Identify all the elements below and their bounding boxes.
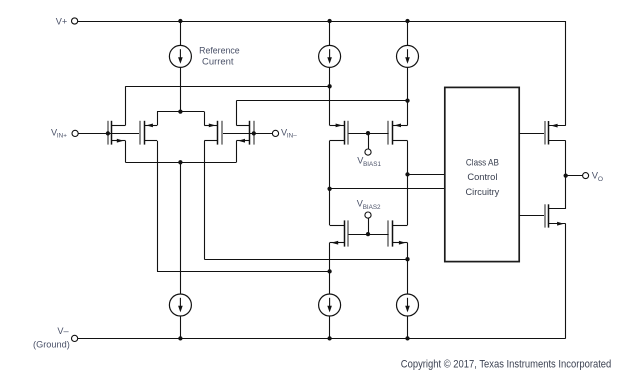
wire M7 source down — [329, 243, 331, 294]
wire M4 source up — [204, 112, 206, 126]
wire I5 to V- rail — [329, 316, 331, 338]
svg-text:IN+: IN+ — [57, 133, 67, 140]
svg-text:Reference: Reference — [199, 46, 240, 56]
wire tail to sink I4 — [180, 162, 182, 294]
wire M3 drain down — [157, 141, 159, 272]
wire classAB to M10 gate — [519, 215, 545, 217]
node inner-pair common source — [178, 109, 182, 113]
wire outer-left drain bus — [125, 86, 329, 88]
transistor M10 (output NMOS) — [544, 204, 546, 227]
wire VBIAS2 gate bus — [348, 234, 388, 236]
current sink I4 — [169, 294, 191, 316]
node junction V+/current source I2 — [327, 19, 331, 23]
node M5 drain / class-AB sense 2 — [327, 187, 331, 191]
wire sense2 to classAB box — [330, 188, 445, 190]
node M6 drain / class-AB sense 1 — [405, 172, 409, 176]
svg-text:V–: V– — [57, 326, 69, 336]
current source I3 — [397, 45, 419, 67]
wire output to VO terminal — [566, 175, 583, 177]
svg-text:Current: Current — [202, 57, 234, 67]
wire M4 drain to M8 bus — [204, 259, 407, 261]
wire M4 source to common node — [180, 111, 204, 113]
wire I6 to V- rail — [407, 316, 409, 338]
wire M2 drain up — [236, 101, 238, 126]
wire I4 to V- rail — [180, 316, 182, 338]
transistor M3 (inner-left PMOS input) — [139, 121, 141, 145]
wire VBIAS2 stub — [368, 218, 370, 234]
svg-text:BIAS2: BIAS2 — [363, 204, 381, 211]
wire VBIAS1 stub — [368, 133, 370, 149]
terminal VIN+ — [72, 130, 78, 136]
wire outer-pair tail bus — [125, 162, 236, 164]
node V-/I6 — [405, 336, 409, 340]
wire M3 source up — [157, 112, 159, 126]
wire M4 drain down — [204, 141, 206, 260]
svg-text:V+: V+ — [56, 17, 68, 27]
node VIN+ gate junction — [106, 131, 110, 135]
wire M1 drain up — [125, 86, 127, 125]
transistor M2 (outer-right NMOS input) — [253, 121, 255, 145]
wire V- rail — [78, 338, 566, 340]
svg-text:Copyright © 2017, Texas Instru: Copyright © 2017, Texas Instruments Inco… — [401, 358, 612, 370]
terminal VBIAS2 — [365, 212, 371, 218]
transistor M5 (VBIAS1 cascode left) — [347, 121, 349, 145]
transistor M6 (VBIAS1 cascode right) — [387, 121, 389, 145]
terminal VBIAS1 — [365, 149, 371, 155]
wire V+ to I2 — [329, 21, 331, 45]
node V-/I5 — [327, 336, 331, 340]
wire M3 source to common node — [157, 111, 180, 113]
svg-text:Control: Control — [467, 171, 497, 182]
wire V+ rail — [78, 21, 566, 23]
transistor M4 (inner-right PMOS input) — [221, 121, 223, 145]
node I2/outer-left drain bus — [327, 84, 331, 88]
wire M6 drain down — [407, 141, 409, 225]
wire M2 source down — [236, 141, 238, 163]
node VBIAS2 gate tap — [366, 232, 370, 236]
svg-text:O: O — [598, 176, 603, 183]
svg-text:BIAS1: BIAS1 — [363, 161, 381, 168]
node VIN- gate junction — [252, 131, 256, 135]
current source reference (I1) — [169, 45, 191, 67]
wire VBIAS1 gate bus — [348, 133, 388, 135]
wire V+ to I3 — [407, 21, 409, 45]
wire M10 source down to V- rail — [565, 224, 567, 339]
wire V+ to I1 — [180, 21, 182, 45]
wire VIN+ to input gates — [78, 133, 140, 135]
svg-text:Class AB: Class AB — [466, 156, 499, 167]
svg-text:(Ground): (Ground) — [33, 339, 70, 349]
wire M3 drain to M7 bus — [157, 271, 330, 273]
terminal VIN- — [272, 130, 278, 136]
wire M1 source down — [125, 141, 127, 163]
node output — [564, 173, 568, 177]
wire I2 down to cascode M5 — [329, 67, 331, 125]
node V-/I4 — [178, 336, 182, 340]
block Class AB Control Circuitry — [445, 87, 519, 261]
node I3/outer-right drain bus — [405, 98, 409, 102]
svg-text:IN–: IN– — [287, 133, 297, 140]
wire I3 down to cascode M6 — [407, 67, 409, 125]
terminal VO — [583, 173, 589, 179]
transistor M9 (output PMOS) — [544, 121, 546, 145]
node junction V+/current source I3 — [405, 19, 409, 23]
current sink I5 — [319, 294, 341, 316]
svg-text:Circuitry: Circuitry — [466, 186, 500, 197]
node outer-pair tail — [178, 160, 182, 164]
node VBIAS1 gate tap — [366, 131, 370, 135]
transistor M8 (VBIAS2 cascode right) — [387, 220, 389, 246]
node M7/M3 drain join — [327, 269, 331, 273]
transistor M7 (VBIAS2 cascode left) — [347, 220, 349, 246]
terminal V+ — [72, 18, 78, 24]
wire M8 source down — [407, 243, 409, 294]
wire M5 drain down — [329, 141, 331, 225]
terminal V- (Ground) — [72, 335, 78, 341]
node junction V+/reference current — [178, 19, 182, 23]
transistor M1 (outer-left NMOS input) — [107, 121, 109, 145]
wire VIN- to input gates — [222, 133, 273, 135]
wire I1 to inner pair source node — [180, 67, 182, 111]
wire sense1 to classAB box — [408, 174, 445, 176]
wire V+ rail drop to output PMOS source — [565, 21, 567, 126]
wire classAB to M9 gate — [519, 133, 545, 135]
wire outer-right drain bus — [236, 100, 407, 102]
current sink I6 — [397, 294, 419, 316]
node M8/M4 drain join — [405, 257, 409, 261]
wire output node — [565, 141, 567, 209]
current source I2 — [319, 45, 341, 67]
